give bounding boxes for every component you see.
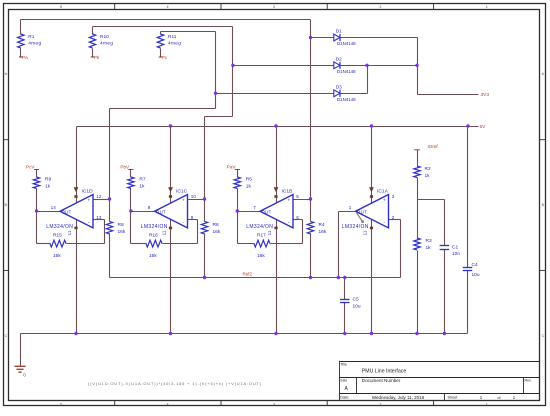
svg-text:R6: R6 bbox=[213, 222, 219, 228]
svg-text:((V(U1D:OUT)-V(U1A:OUT))*(40/3: ((V(U1D:OUT)-V(U1A:OUT))*(40/3.185 + 1)-… bbox=[88, 381, 262, 386]
svg-text:12: 12 bbox=[96, 194, 102, 199]
svg-text:D1N4148: D1N4148 bbox=[337, 69, 356, 74]
svg-text:+: + bbox=[182, 198, 185, 203]
svg-text:1k: 1k bbox=[246, 183, 252, 189]
svg-text:3: 3 bbox=[273, 5, 275, 9]
svg-text:Pc: Pc bbox=[162, 55, 168, 60]
svg-text:R9: R9 bbox=[45, 176, 51, 182]
svg-text:Wednesday, July 11, 2018: Wednesday, July 11, 2018 bbox=[372, 395, 425, 400]
svg-text:4: 4 bbox=[167, 402, 169, 406]
svg-text:10u: 10u bbox=[353, 304, 361, 310]
svg-text:IOref: IOref bbox=[428, 144, 439, 149]
svg-text:14: 14 bbox=[51, 205, 57, 210]
svg-text:C4: C4 bbox=[472, 262, 478, 268]
svg-text:5: 5 bbox=[60, 5, 62, 9]
svg-text:10n: 10n bbox=[452, 251, 460, 257]
svg-text:10u: 10u bbox=[472, 272, 480, 278]
svg-text:R17: R17 bbox=[257, 233, 266, 239]
svg-text:Sheet: Sheet bbox=[448, 396, 459, 400]
svg-text:OUT: OUT bbox=[62, 209, 72, 214]
svg-text:Ref2: Ref2 bbox=[243, 272, 253, 277]
svg-text:R11: R11 bbox=[168, 34, 177, 40]
svg-text:PMU Line Interface: PMU Line Interface bbox=[362, 368, 407, 374]
svg-text:6: 6 bbox=[296, 215, 299, 220]
svg-text:IC1C: IC1C bbox=[176, 189, 188, 195]
svg-text:R7: R7 bbox=[139, 176, 145, 182]
svg-text:D1: D1 bbox=[336, 29, 342, 34]
svg-text:PbV: PbV bbox=[120, 164, 130, 169]
svg-text:8: 8 bbox=[148, 205, 151, 210]
svg-text:16k: 16k bbox=[149, 253, 157, 259]
svg-text:16k: 16k bbox=[53, 253, 61, 259]
svg-text:13: 13 bbox=[96, 215, 102, 220]
svg-text:1: 1 bbox=[486, 5, 488, 9]
svg-text:R4: R4 bbox=[319, 222, 325, 228]
svg-text:OUT: OUT bbox=[357, 209, 367, 214]
svg-text:LM324/ON: LM324/ON bbox=[342, 224, 369, 230]
svg-text:16k: 16k bbox=[257, 253, 265, 259]
svg-text:R2: R2 bbox=[425, 166, 431, 172]
svg-text:Size: Size bbox=[340, 379, 347, 383]
svg-text:2: 2 bbox=[379, 402, 381, 406]
svg-text:16k: 16k bbox=[118, 229, 126, 235]
svg-text:IC1A: IC1A bbox=[377, 189, 389, 195]
svg-text:1: 1 bbox=[349, 205, 352, 210]
svg-text:+: + bbox=[383, 198, 386, 203]
svg-text:C5: C5 bbox=[353, 297, 359, 303]
svg-text:1: 1 bbox=[486, 402, 488, 406]
svg-text:16k: 16k bbox=[213, 229, 221, 235]
svg-text:7: 7 bbox=[253, 205, 256, 210]
svg-text:+: + bbox=[288, 198, 291, 203]
svg-text:4meg: 4meg bbox=[100, 41, 113, 47]
svg-text:Pb: Pb bbox=[94, 55, 100, 60]
svg-text:11: 11 bbox=[363, 230, 368, 235]
svg-text:11: 11 bbox=[162, 230, 167, 235]
svg-text:3V3: 3V3 bbox=[481, 92, 490, 98]
svg-text:LM324/ON: LM324/ON bbox=[141, 224, 168, 230]
svg-text:9: 9 bbox=[191, 215, 194, 220]
svg-text:3: 3 bbox=[392, 194, 395, 199]
svg-text:OUT: OUT bbox=[262, 209, 272, 214]
svg-text:R8: R8 bbox=[118, 222, 124, 228]
svg-text:1k: 1k bbox=[425, 173, 431, 179]
svg-text:11: 11 bbox=[267, 230, 272, 235]
svg-text:PaV: PaV bbox=[227, 164, 237, 169]
svg-text:PcV: PcV bbox=[26, 164, 35, 169]
svg-text:1k: 1k bbox=[139, 183, 145, 189]
svg-text:IC1B: IC1B bbox=[282, 189, 293, 195]
svg-text:C1: C1 bbox=[452, 244, 458, 250]
svg-text:11: 11 bbox=[67, 230, 72, 235]
svg-text:5: 5 bbox=[296, 194, 299, 199]
svg-text:1k: 1k bbox=[45, 183, 51, 189]
svg-text:4: 4 bbox=[167, 5, 169, 9]
svg-text:4meg: 4meg bbox=[168, 41, 181, 47]
svg-text:2: 2 bbox=[392, 215, 395, 220]
svg-text:Document Number: Document Number bbox=[362, 378, 401, 383]
svg-text:R1: R1 bbox=[28, 34, 34, 40]
svg-text:R16: R16 bbox=[149, 233, 158, 239]
svg-text:Pa: Pa bbox=[22, 55, 28, 60]
svg-text:OUT: OUT bbox=[156, 209, 166, 214]
svg-text:R10: R10 bbox=[100, 34, 109, 40]
svg-text:R5: R5 bbox=[246, 176, 252, 182]
svg-text:Date:: Date: bbox=[340, 396, 349, 400]
svg-text:4meg: 4meg bbox=[28, 41, 41, 47]
svg-text:10: 10 bbox=[191, 194, 197, 199]
svg-text:LM324/ON: LM324/ON bbox=[46, 224, 73, 230]
svg-text:2: 2 bbox=[379, 5, 381, 9]
svg-text:D1N4148: D1N4148 bbox=[337, 41, 356, 46]
svg-text:0: 0 bbox=[23, 373, 26, 378]
svg-text:3: 3 bbox=[273, 402, 275, 406]
svg-text:R15: R15 bbox=[53, 233, 62, 239]
svg-text:D2: D2 bbox=[336, 56, 342, 61]
svg-text:Title: Title bbox=[340, 363, 347, 367]
svg-text:16k: 16k bbox=[319, 229, 327, 235]
svg-text:5: 5 bbox=[60, 402, 62, 406]
svg-text:1k: 1k bbox=[426, 245, 432, 251]
svg-text:IC1D: IC1D bbox=[82, 189, 94, 195]
svg-text:R3: R3 bbox=[426, 238, 432, 244]
svg-text:D3: D3 bbox=[336, 84, 342, 89]
svg-text:+: + bbox=[88, 198, 91, 203]
svg-text:5V: 5V bbox=[480, 124, 487, 130]
svg-text:LM324/ON: LM324/ON bbox=[246, 224, 273, 230]
svg-text:D1N4148: D1N4148 bbox=[337, 97, 356, 102]
svg-text:Rev: Rev bbox=[525, 379, 532, 383]
